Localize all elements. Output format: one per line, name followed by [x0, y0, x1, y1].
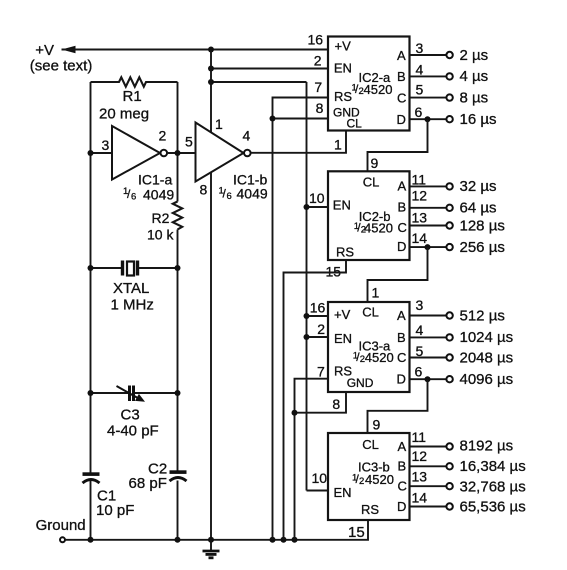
svg-text:B: B	[398, 199, 407, 214]
svg-text:9: 9	[373, 417, 381, 433]
value label 1/6 4049 for IC1-a	[123, 186, 174, 203]
value label 256 us	[460, 239, 505, 256]
svg-text:7: 7	[317, 363, 325, 379]
terminal C IC3-a	[446, 354, 452, 360]
svg-text:4: 4	[416, 322, 424, 338]
wire EN line IC2-b	[307, 206, 329, 208]
svg-text:C3: C3	[121, 407, 140, 424]
counter IC3-b	[328, 433, 410, 520]
wire RS line IC2-a to ground	[273, 98, 329, 540]
wire +V line IC3-a	[307, 315, 329, 317]
svg-text:12: 12	[412, 187, 428, 203]
terminal D IC3-a	[446, 376, 452, 382]
pin 15 label IC3-b	[348, 524, 365, 541]
wire IC2-b output C	[410, 225, 447, 227]
svg-text:6: 6	[227, 191, 232, 202]
svg-text:2 µs: 2 µs	[460, 47, 489, 64]
svg-text:C: C	[397, 90, 406, 105]
svg-text:6: 6	[415, 104, 423, 120]
pin 14 label IC2-b	[412, 230, 428, 246]
junction rail x=90.5	[88, 537, 94, 543]
value label 8 us	[460, 89, 489, 106]
svg-text:3: 3	[102, 137, 110, 153]
wire EN line IC3-b	[307, 490, 329, 492]
value label 128 us	[460, 217, 505, 234]
svg-text:2: 2	[159, 128, 167, 144]
value label 512 us	[460, 307, 505, 324]
wire +V distribution vertical x=306.5	[306, 82, 308, 491]
svg-text:C: C	[398, 220, 407, 235]
terminal A IC3-b	[446, 443, 452, 449]
pin 3 label IC1-a	[102, 137, 110, 153]
terminal B IC3-a	[446, 334, 452, 340]
svg-text:GND: GND	[347, 376, 374, 390]
svg-text:4049: 4049	[237, 186, 268, 202]
pin 1 label IC1-b	[215, 116, 223, 132]
svg-text:8: 8	[316, 100, 324, 116]
wire IC2-a output A	[410, 54, 447, 56]
pin 16 label IC3-a	[310, 300, 326, 316]
terminal C IC2-b	[446, 222, 452, 228]
svg-text:8192 µs: 8192 µs	[460, 437, 514, 454]
terminal A IC2-a	[446, 52, 452, 58]
pin 6 label IC2-a	[415, 104, 423, 120]
pin 10 label IC3-b	[312, 470, 328, 486]
junction (427.5,247.1)	[425, 244, 431, 250]
pin 13 label IC3-b	[412, 468, 428, 484]
value label 2 us	[460, 47, 489, 64]
svg-text:4520: 4520	[364, 82, 393, 97]
pin 1 label IC3-a	[372, 285, 380, 301]
wire left oscillator vertical x=90.5	[90, 82, 92, 473]
value label 1024 us	[460, 329, 514, 346]
svg-text:1 MHz: 1 MHz	[111, 296, 154, 313]
pin 14 label IC3-b	[412, 489, 428, 505]
svg-text:8 µs: 8 µs	[460, 89, 489, 106]
svg-text:EN: EN	[334, 485, 352, 500]
wire cascade IC3-a D to IC3-b CL	[368, 379, 428, 433]
wire GND pin8 IC3-a	[295, 392, 347, 413]
svg-text:3: 3	[416, 40, 424, 56]
svg-text:16,384 µs: 16,384 µs	[460, 458, 526, 475]
svg-text:2: 2	[314, 53, 322, 69]
wire RS line IC3-a to ground	[295, 379, 329, 540]
pin 11 label IC2-b	[412, 171, 427, 187]
svg-text:C: C	[398, 479, 407, 494]
svg-text:11: 11	[412, 429, 427, 445]
terminal D IC2-a	[446, 116, 452, 122]
pin 4 label IC3-a	[416, 322, 424, 338]
svg-text:A: A	[397, 48, 406, 63]
pin 8 label IC2-a	[316, 100, 324, 116]
junction (306.5,337)	[304, 334, 310, 340]
svg-text:12: 12	[412, 448, 428, 464]
svg-text:4520: 4520	[364, 220, 393, 235]
value label 1/2 4520 for IC2-b	[354, 220, 393, 235]
junction XTAL left (90.5,268)	[88, 265, 94, 271]
pin 5 label IC1-b	[185, 134, 193, 150]
pin 1 label IC2-a	[334, 137, 342, 153]
svg-text:1024 µs: 1024 µs	[460, 329, 514, 346]
terminal D IC2-b	[446, 244, 452, 250]
value label 4096 us	[460, 371, 514, 388]
svg-text:1: 1	[334, 137, 342, 153]
svg-text:+V: +V	[335, 38, 352, 53]
node Ground terminal	[36, 517, 86, 542]
svg-text:16 µs: 16 µs	[460, 111, 497, 128]
pin 7 label IC2-a	[314, 79, 322, 95]
pin 9 label IC2-b	[371, 155, 379, 171]
pin 12 label IC3-b	[412, 448, 428, 464]
junction rail x=177.5	[175, 537, 181, 543]
svg-text:RS: RS	[336, 245, 354, 260]
junction rail x=211	[208, 537, 214, 543]
wire IC3-b output A	[410, 446, 447, 448]
svg-text:+V: +V	[35, 42, 54, 59]
svg-text:1: 1	[372, 285, 380, 301]
junction output node (177.5,153)	[175, 150, 181, 156]
pin 2 label IC2-a	[314, 53, 322, 69]
svg-text:14: 14	[412, 489, 428, 505]
resistor R1	[91, 77, 178, 122]
svg-text:Ground: Ground	[36, 517, 86, 534]
svg-text:13: 13	[412, 468, 428, 484]
pin 3 label IC3-a	[416, 297, 424, 313]
value label 1/6 4049 for IC1-b	[219, 186, 268, 203]
junction rail x=272.5	[270, 537, 276, 543]
svg-text:4096 µs: 4096 µs	[460, 371, 514, 388]
svg-text:2048 µs: 2048 µs	[460, 349, 514, 366]
svg-text:3: 3	[416, 297, 424, 313]
svg-text:32,768 µs: 32,768 µs	[460, 479, 526, 496]
wire left oscillator vertical lower	[90, 481, 92, 540]
pin 12 label IC2-b	[412, 187, 428, 203]
wire +V branch to distribution vertical	[211, 81, 307, 83]
wire cascade IC2-b D to IC3-a CL	[368, 247, 428, 302]
svg-text:256 µs: 256 µs	[460, 239, 505, 256]
svg-text:14: 14	[412, 230, 428, 246]
counter IC3-a	[328, 302, 410, 392]
svg-text:10 k: 10 k	[147, 227, 174, 243]
pin 8 label IC1-b	[200, 182, 208, 198]
svg-text:4049: 4049	[143, 187, 174, 203]
pin 2 label IC3-a	[317, 321, 325, 337]
value label 8192 us	[460, 437, 514, 454]
svg-text:2: 2	[359, 476, 364, 487]
svg-text:D: D	[397, 499, 406, 514]
pin 15 label IC2-b	[326, 264, 342, 280]
svg-text:13: 13	[412, 210, 428, 226]
junction XTAL right (177.5,268)	[175, 265, 181, 271]
wire IC2-b output A	[410, 185, 447, 187]
wire IC1-b output to IC2-a CL pin 1	[251, 131, 346, 153]
wire +V vertical to IC1-b pin 1	[210, 50, 212, 133]
svg-text:RS: RS	[361, 502, 379, 517]
junction at (211,68.5)	[208, 66, 214, 72]
value label 4 us	[460, 68, 489, 85]
svg-text:4520: 4520	[365, 472, 394, 487]
resistor R2	[147, 202, 182, 243]
terminal B IC2-b	[446, 205, 452, 211]
svg-text:B: B	[397, 330, 406, 345]
wire IC3-a output B	[410, 336, 447, 338]
svg-text:4-40 pF: 4-40 pF	[107, 422, 159, 439]
svg-text:4: 4	[416, 61, 424, 77]
wire IC3-a output A	[410, 315, 447, 317]
terminal C IC2-a	[446, 94, 452, 100]
wire IC2-b output B	[410, 207, 447, 209]
svg-text:4520: 4520	[365, 350, 394, 365]
svg-text:11: 11	[412, 171, 427, 187]
svg-text:EN: EN	[334, 331, 352, 346]
svg-text:RS: RS	[334, 89, 352, 104]
svg-text:6: 6	[131, 192, 136, 203]
svg-text:64 µs: 64 µs	[460, 200, 497, 217]
svg-text:B: B	[397, 69, 406, 84]
value label 64 us	[460, 200, 497, 217]
wire IC3-a output D	[410, 378, 447, 380]
svg-text:CL: CL	[347, 117, 363, 131]
svg-text:A: A	[397, 308, 406, 323]
counter IC2-a	[328, 37, 410, 131]
junction C3 right (177.5,393)	[175, 390, 181, 396]
svg-text:XTAL: XTAL	[113, 280, 149, 297]
svg-text:65,536 µs: 65,536 µs	[460, 499, 526, 516]
svg-text:8: 8	[332, 396, 340, 412]
svg-text:4: 4	[243, 128, 251, 144]
pin 6 label IC3-a	[415, 364, 423, 380]
op-amp IC1-b inverter	[196, 123, 268, 188]
pin 16 label IC2-a	[308, 31, 324, 47]
junction (294.5,412.7)	[292, 410, 298, 416]
pin 4 label IC2-a	[416, 61, 424, 77]
pin 7 label IC3-a	[317, 363, 325, 379]
wire IC3-a output C	[410, 357, 447, 359]
svg-text:16: 16	[310, 300, 326, 316]
svg-text:2: 2	[317, 321, 325, 337]
junction rail x=294.5	[292, 537, 298, 543]
value label 32 us	[460, 178, 497, 195]
pin 9 label IC3-b	[373, 417, 381, 433]
svg-text:R2: R2	[152, 210, 170, 226]
wire RS pin15 IC2-b to ground	[284, 260, 347, 540]
svg-text:32 µs: 32 µs	[460, 178, 497, 195]
junction (272.5,118.5)	[270, 116, 276, 122]
svg-text:20 meg: 20 meg	[99, 106, 149, 123]
svg-text:15: 15	[326, 264, 342, 280]
svg-text:5: 5	[416, 343, 424, 359]
pin 4 label IC1-b	[243, 128, 251, 144]
svg-text:D: D	[397, 112, 406, 127]
svg-text:B: B	[398, 459, 407, 474]
junction rail x=283.5	[281, 537, 287, 543]
svg-text:7: 7	[314, 79, 322, 95]
junction (427.5,119.2)	[425, 116, 431, 122]
pin 13 label IC2-b	[412, 210, 428, 226]
svg-text:R1: R1	[123, 88, 142, 105]
capacitor C2	[129, 460, 187, 492]
svg-text:A: A	[398, 178, 407, 193]
svg-text:CL: CL	[362, 305, 379, 320]
capacitor C1	[83, 472, 135, 519]
wire EN line IC3-a	[307, 336, 329, 338]
value label 1/2 4520 for IC3-a	[353, 350, 394, 365]
svg-text:512 µs: 512 µs	[460, 307, 505, 324]
terminal C IC3-b	[446, 483, 452, 489]
wire IC1-a input from left rail	[91, 152, 113, 154]
svg-text:8: 8	[200, 182, 208, 198]
node +V supply label	[30, 42, 93, 75]
wire +V rail to IC2-a pin 16	[62, 49, 329, 51]
svg-text:D: D	[397, 239, 406, 254]
value label 32768 us	[460, 479, 526, 496]
capacitor C3 trimmer	[91, 386, 178, 440]
junction input node (90.5,153)	[88, 150, 94, 156]
svg-text:5: 5	[416, 82, 424, 98]
svg-text:D: D	[397, 371, 406, 386]
value label 1/2 4520 for IC2-a	[352, 82, 393, 97]
svg-text:IC1-a: IC1-a	[138, 172, 172, 188]
wire IC2-a output D	[410, 118, 447, 120]
svg-text:CL: CL	[363, 174, 380, 189]
svg-text:10 pF: 10 pF	[96, 502, 134, 519]
terminal A IC3-a	[446, 312, 452, 318]
value label 65536 us	[460, 499, 526, 516]
junction (427.5,379.2)	[425, 376, 431, 382]
wire IC1-a output to IC1-b input	[167, 152, 195, 154]
svg-text:16: 16	[308, 31, 324, 47]
junction (306.5,316)	[304, 313, 310, 319]
ground symbol	[203, 540, 220, 558]
svg-text:CL: CL	[362, 437, 379, 452]
svg-text:10: 10	[312, 470, 328, 486]
pin 8 label IC3-a	[332, 396, 340, 412]
wire IC2-a output C	[410, 97, 447, 99]
terminal D IC3-b	[446, 503, 452, 509]
svg-text:C: C	[397, 350, 406, 365]
svg-text:EN: EN	[334, 60, 352, 75]
terminal A IC2-b	[446, 183, 452, 189]
wire cascade IC2-a D to IC2-b CL	[368, 119, 428, 171]
terminal B IC2-a	[446, 73, 452, 79]
junction (306.5,207)	[304, 204, 310, 210]
crystal XTAL	[91, 261, 178, 314]
wire IC3-b output B	[410, 465, 447, 467]
junction at (211,82)	[208, 79, 214, 85]
value label 16384 us	[460, 458, 526, 475]
value label 2048 us	[460, 349, 514, 366]
pin 5 label IC2-a	[416, 82, 424, 98]
wire IC3-b output C	[410, 485, 447, 487]
wire IC2-a output B	[410, 75, 447, 77]
svg-text:10: 10	[309, 190, 325, 206]
wire EN line to IC2-a pin 2	[211, 68, 328, 70]
svg-text:9: 9	[371, 155, 379, 171]
svg-text:6: 6	[415, 364, 423, 380]
svg-text:1: 1	[215, 116, 223, 132]
wire right oscillator vertical lower	[177, 481, 179, 540]
svg-text:EN: EN	[333, 198, 351, 213]
pin 11 label IC3-b	[412, 429, 427, 445]
pin 10 label IC2-b	[309, 190, 325, 206]
junction C3 left (90.5,393)	[88, 390, 94, 396]
wire ground rail	[65, 520, 368, 540]
value label 16 us	[460, 111, 497, 128]
counter IC2-b	[328, 171, 410, 260]
wire GND line IC2-a	[273, 118, 329, 120]
svg-text:A: A	[398, 439, 407, 454]
svg-text:4 µs: 4 µs	[460, 68, 489, 85]
svg-text:(see text): (see text)	[30, 58, 93, 75]
junction +V rail x=211	[208, 47, 214, 53]
terminal B IC3-b	[446, 463, 452, 469]
pin 2 label IC1-a	[159, 128, 167, 144]
svg-text:128 µs: 128 µs	[460, 217, 505, 234]
wire right oscillator vertical x=177.5 upper	[177, 82, 179, 202]
value label 1/2 4520 for IC3-b	[352, 472, 394, 487]
op-amp IC1-a inverter	[112, 126, 172, 188]
svg-text:+V: +V	[334, 307, 351, 322]
pin 3 label IC2-a	[416, 40, 424, 56]
pin 5 label IC3-a	[416, 343, 424, 359]
wire IC3-b output D	[410, 506, 447, 508]
wire right oscillator vertical x=177.5 middle	[177, 230, 179, 471]
svg-text:5: 5	[185, 134, 193, 150]
wire IC1-b ground vertical x=211	[210, 173, 212, 540]
svg-text:15: 15	[348, 524, 365, 541]
svg-text:68 pF: 68 pF	[129, 475, 167, 492]
wire IC2-b output D	[410, 246, 447, 248]
